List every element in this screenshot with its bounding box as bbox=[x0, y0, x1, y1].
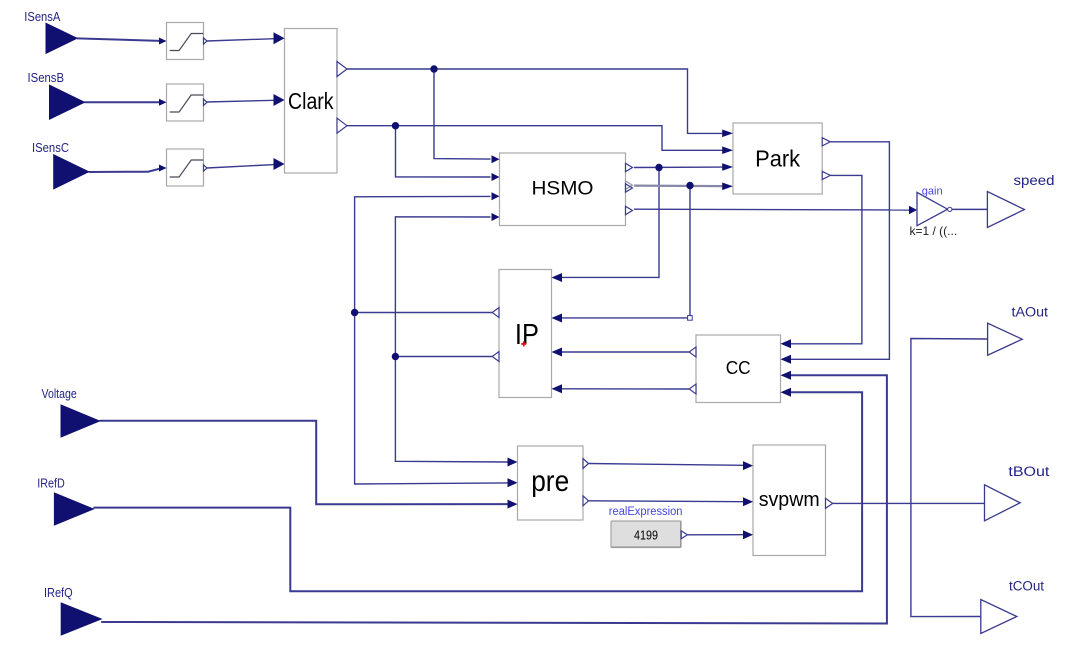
pin IP.in4 bbox=[552, 384, 563, 393]
wire IP.out2 stub bbox=[395, 356, 492, 358]
pin limiter3.y bbox=[204, 165, 208, 171]
pin svpwm.out bbox=[826, 498, 833, 508]
pin HSMO.in3 bbox=[492, 192, 500, 200]
wire HSMO.out1 to Park.in3 bbox=[634, 166, 723, 168]
pin svpwm.in1 bbox=[743, 461, 753, 470]
pin limiter1.y bbox=[204, 38, 208, 44]
wire IRefQ to CC.in3 bbox=[101, 375, 887, 623]
wire limiter3 to Clark.u3 bbox=[207, 165, 274, 168]
pin Clark.y1 bbox=[337, 62, 347, 77]
wire CC.out2 to IP.in4 bbox=[562, 388, 690, 390]
pin CC.in4 bbox=[781, 388, 792, 397]
wire svpwm net to tAOut and tCOut bbox=[911, 339, 988, 617]
svg-text:k=1 / ((...: k=1 / ((... bbox=[910, 224, 958, 238]
pin gain.u bbox=[909, 206, 917, 214]
svg-text:ISensC: ISensC bbox=[32, 140, 69, 155]
wire HSMO.out3 to gain bbox=[634, 208, 910, 211]
pin pre.in2 bbox=[508, 478, 518, 487]
pin pre.in3 bbox=[508, 500, 518, 509]
wire pre.out2 to svpwm.in2 bbox=[589, 500, 745, 503]
pin limiter2.y bbox=[204, 99, 208, 105]
svg-text:realExpression: realExpression bbox=[609, 506, 683, 518]
svg-text:gain: gain bbox=[922, 185, 943, 197]
gain block triangle bbox=[917, 192, 948, 225]
wire realExpression to svpwm.in3 bbox=[687, 534, 744, 536]
svg-text:HSMO: HSMO bbox=[532, 179, 594, 200]
svg-text:Clark: Clark bbox=[288, 88, 334, 114]
input connector IRefQ bbox=[61, 603, 101, 635]
output connector tBOut bbox=[985, 485, 1021, 521]
pin svpwm.in3 bbox=[743, 530, 753, 539]
block realExpression value 4199 bbox=[611, 521, 681, 548]
input connector Voltage bbox=[61, 405, 100, 437]
wire Clark.y2 branch to HSMO.in2 bbox=[396, 126, 491, 177]
limiter limiter2 bbox=[167, 84, 204, 121]
junction HSMO.out1 bbox=[655, 164, 662, 171]
pin Park.in2 bbox=[722, 146, 733, 154]
wire Clark.y2 to Park.in2 bbox=[347, 126, 723, 151]
pin limiter1.u bbox=[159, 38, 167, 45]
svg-text:tCOut: tCOut bbox=[1009, 579, 1044, 594]
block CC bbox=[696, 335, 781, 403]
pin svpwm.in2 bbox=[743, 497, 753, 506]
block Park bbox=[733, 123, 822, 194]
svg-text:IRefD: IRefD bbox=[37, 476, 65, 491]
junction HSMO.out2 bbox=[686, 182, 693, 189]
svg-text:svpwm: svpwm bbox=[759, 489, 820, 511]
junction Clark.y1 bbox=[430, 65, 437, 72]
junction IP.out2 bbox=[392, 353, 399, 360]
svg-text:tBOut: tBOut bbox=[1008, 464, 1049, 479]
pin CC.out2 bbox=[689, 384, 696, 394]
pin HSMO.out2 (double port) bbox=[626, 181, 633, 192]
pin Park.in4 bbox=[722, 183, 733, 191]
pin HSMO.out1 bbox=[626, 163, 633, 171]
input connector ISensC bbox=[54, 155, 89, 189]
pin gain.y circle bbox=[948, 207, 952, 211]
wire Park.out1 to CC.in2 bbox=[791, 142, 890, 359]
wire Clark.y1 branch to HSMO.in1 bbox=[434, 69, 491, 159]
pin HSMO.out3 bbox=[626, 206, 633, 214]
output connector speed bbox=[987, 192, 1024, 228]
pin Clark.u3 bbox=[274, 158, 285, 170]
pin Park.in3 bbox=[722, 163, 733, 171]
wire Voltage to pre.in3 bbox=[100, 421, 508, 505]
pin Park.out1 bbox=[822, 138, 830, 146]
input connector ISensB bbox=[50, 85, 85, 119]
svg-text:Voltage: Voltage bbox=[42, 386, 77, 401]
wire ISensA to limiter1 bbox=[77, 38, 160, 41]
block Clark bbox=[285, 29, 338, 174]
pin HSMO.in4 bbox=[492, 213, 500, 221]
svg-text:IRefQ: IRefQ bbox=[44, 585, 73, 600]
wire ISensB to limiter2 bbox=[85, 101, 161, 103]
wire CC.out1 to IP.in3 bbox=[562, 351, 690, 353]
svg-text:IP: IP bbox=[515, 319, 539, 351]
wire limiter2 to Clark.u2 bbox=[206, 100, 274, 102]
svg-text:pre: pre bbox=[531, 465, 569, 498]
wire limiter1 to Clark.u1 bbox=[207, 39, 274, 41]
pin Clark.u1 bbox=[274, 32, 285, 44]
red mark on IP icon bbox=[521, 341, 526, 346]
pin realExpression.y bbox=[681, 531, 687, 539]
wire gain to speed bbox=[952, 208, 988, 210]
wire svpwm.out to tBOut bbox=[833, 502, 986, 504]
junction IP.out1 bbox=[351, 309, 358, 316]
wire IP.out1 net to HSMO.in3 and pre.in2 bbox=[355, 196, 508, 484]
block IP bbox=[499, 270, 552, 398]
pin limiter3.u bbox=[159, 165, 167, 172]
svg-text:CC: CC bbox=[726, 358, 751, 378]
wire HSMO.out2 branch to IP.in2 bbox=[562, 186, 691, 318]
pin limiter2.u bbox=[159, 99, 167, 106]
output connector tCOut bbox=[981, 600, 1017, 634]
block pre bbox=[518, 446, 584, 520]
pin Clark.u2 bbox=[274, 94, 285, 106]
block svpwm bbox=[753, 445, 826, 556]
wire Clark.y1 to Park.in1 bbox=[347, 69, 723, 133]
pin Clark.y2 bbox=[337, 118, 347, 133]
limiter limiter1 bbox=[167, 23, 204, 60]
svg-text:ISensB: ISensB bbox=[28, 70, 65, 85]
wire HSMO.out1 branch to IP.in1 bbox=[562, 168, 660, 278]
pin IP.in3 bbox=[552, 348, 563, 357]
pin HSMO.in2 bbox=[492, 173, 500, 181]
junction Clark.y2 bbox=[392, 122, 399, 129]
svg-text:ISensA: ISensA bbox=[24, 9, 60, 24]
svg-text:4199: 4199 bbox=[634, 528, 658, 542]
pin HSMO.in1 bbox=[492, 155, 500, 163]
block HSMO bbox=[500, 153, 626, 226]
input connector ISensA bbox=[46, 23, 77, 53]
svg-text:tAOut: tAOut bbox=[1012, 305, 1049, 320]
input connector IRefD bbox=[54, 493, 93, 525]
node square joint HSMO.out2 branch bbox=[688, 316, 693, 321]
pin IP.out2 bbox=[492, 352, 499, 362]
wire HSMO.out2 to Park.in4 (gray link) bbox=[634, 185, 723, 188]
pin Park.out2 bbox=[822, 171, 830, 179]
output connector tAOut bbox=[988, 323, 1023, 355]
pin IP.in1 bbox=[552, 273, 563, 282]
pin pre.out2 bbox=[583, 496, 589, 506]
svg-text:Park: Park bbox=[755, 146, 800, 172]
wire IP.out1 stub bbox=[355, 312, 493, 314]
wire pre.out1 to svpwm.in1 bbox=[589, 464, 745, 466]
limiter limiter3 bbox=[167, 149, 204, 186]
pin IP.in2 bbox=[552, 314, 563, 323]
pin CC.in3 bbox=[781, 371, 792, 380]
pin IP.out1 bbox=[492, 308, 499, 318]
wire IP.out2 net to HSMO.in4 and pre.in1 bbox=[395, 217, 507, 462]
wire IRefD to CC.in4 bbox=[93, 392, 862, 591]
pin CC.in1 bbox=[781, 339, 792, 348]
svg-text:speed: speed bbox=[1014, 172, 1055, 188]
wire Park.out2 to CC.in1 bbox=[791, 175, 862, 343]
pin pre.in1 bbox=[508, 458, 518, 467]
pin Park.in1 bbox=[722, 130, 733, 138]
pin CC.in2 bbox=[781, 355, 792, 364]
pin pre.out1 bbox=[583, 459, 589, 469]
wire ISensC to limiter3 bbox=[89, 168, 161, 172]
pin CC.out1 bbox=[689, 347, 696, 357]
